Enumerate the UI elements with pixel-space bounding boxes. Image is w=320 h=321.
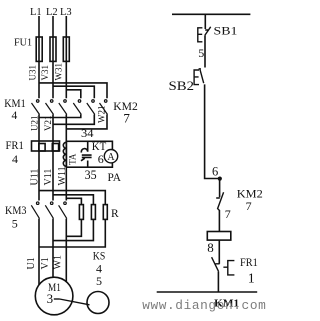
- current relay KT box: [66, 141, 112, 167]
- svg-text:FR1: FR1: [6, 138, 24, 152]
- svg-text:U1: U1: [26, 257, 37, 269]
- svg-text:KS: KS: [93, 250, 106, 262]
- resistor R element 1: [79, 205, 83, 220]
- control wire FR1 to bottom rail: [217, 272, 219, 292]
- start button SB2: [194, 69, 204, 85]
- svg-text:5: 5: [96, 274, 102, 288]
- svg-text:6: 6: [212, 165, 218, 179]
- FR1 heater element 1: [39, 144, 45, 152]
- FR1 heater element 2: [52, 144, 58, 152]
- svg-text:L2: L2: [46, 7, 58, 18]
- svg-text:W11: W11: [57, 166, 68, 185]
- wire tap L1 to resistor 3: [39, 191, 105, 205]
- svg-text:35: 35: [85, 167, 97, 182]
- svg-text:U21: U21: [30, 116, 40, 132]
- contactor KM1 contact 3: [59, 100, 67, 115]
- fuse FU1 pole2: [50, 37, 56, 61]
- svg-text:KT: KT: [92, 141, 107, 153]
- wire resistor1 bottom to L3: [66, 219, 81, 236]
- stop button SB1: [198, 27, 211, 42]
- contactor KM1 contact 1: [32, 100, 40, 115]
- node 6 junction dot: [218, 177, 222, 181]
- ammeter PA circle: [104, 150, 117, 163]
- svg-text:1: 1: [248, 271, 255, 286]
- control bottom rail: [157, 291, 258, 293]
- svg-text:4: 4: [12, 110, 18, 122]
- thermal contact FR1 (NC): [212, 257, 235, 275]
- svg-text:5: 5: [12, 217, 18, 231]
- svg-text:34: 34: [81, 128, 94, 140]
- coil KM1: [207, 232, 231, 241]
- svg-text:V11: V11: [43, 169, 54, 186]
- wire crossover L3 to KM2 left contact: [66, 90, 81, 98]
- control top rail: [172, 13, 250, 15]
- svg-text:TA: TA: [67, 153, 77, 165]
- thermal relay FR1 heater box: [32, 141, 60, 151]
- control wire coil to FR1: [218, 240, 220, 264]
- svg-text:L1: L1: [30, 7, 42, 18]
- speed relay KS circle: [87, 292, 109, 314]
- wire KM2 contact2 bottom to L2: [53, 115, 94, 125]
- svg-text:PA: PA: [108, 172, 122, 184]
- fuse FU1 pole3: [63, 37, 69, 61]
- svg-text:U31: U31: [28, 65, 38, 81]
- contactor KM1 contact 2: [46, 100, 54, 115]
- wire tap L2 to resistor 2: [53, 195, 93, 205]
- svg-text:V21: V21: [43, 116, 53, 132]
- svg-text:7: 7: [123, 111, 130, 126]
- interlock contact KM2 (NC): [216, 192, 223, 210]
- svg-text:5: 5: [198, 46, 204, 60]
- tilde of 3~: [54, 298, 60, 300]
- control wire KM2 contact to coil: [218, 210, 220, 231]
- resistor R element 3: [103, 205, 107, 220]
- wire resistor3 bottom to L1: [39, 219, 105, 247]
- svg-text:V1: V1: [40, 257, 51, 269]
- wire resistor2 bottom to L2: [53, 219, 93, 240]
- svg-text:SB2: SB2: [169, 79, 195, 93]
- contactor KM3 contact 2: [45, 202, 53, 219]
- KT coil symbol: [81, 149, 92, 161]
- current transformer TA arcs: [63, 142, 66, 166]
- motor M1 circle: [35, 277, 73, 315]
- svg-text:KM1: KM1: [4, 98, 26, 110]
- wire tap L3 to resistor 1: [66, 198, 81, 204]
- wire L2 phase: [52, 16, 54, 277]
- svg-text:3: 3: [47, 291, 54, 306]
- svg-text:6: 6: [98, 152, 104, 166]
- svg-text:SB1: SB1: [214, 25, 238, 37]
- svg-text:W31: W31: [54, 63, 64, 81]
- svg-text:A: A: [107, 152, 115, 163]
- control wire node6 to KM2 contact: [219, 179, 221, 198]
- wire L1 phase: [38, 16, 40, 285]
- svg-text:U11: U11: [30, 169, 41, 186]
- svg-text:4: 4: [12, 152, 18, 166]
- KT coil branch wire: [87, 141, 89, 167]
- shaft link motor to KS: [60, 299, 90, 305]
- contactor KM3 contact 1: [31, 202, 39, 219]
- control wire SB1 to SB2: [204, 35, 206, 67]
- wire KM2 contact3 bottom to L3: [66, 115, 107, 129]
- contactor KM2 contact 1: [73, 100, 81, 115]
- svg-text:www.diangon.com: www.diangon.com: [142, 298, 266, 313]
- resistor R element 2: [91, 205, 95, 220]
- control wire from rail to SB1: [204, 14, 206, 29]
- fuse FU1 pole1: [36, 37, 42, 61]
- wire KM2 contact1 bottom to L1: [39, 115, 81, 118]
- wire crossover L1 to KM2 right contact: [39, 83, 107, 98]
- contactor KM2 contact 2: [87, 100, 95, 115]
- control wire SB2 to node 6: [205, 84, 220, 178]
- svg-text:KM3: KM3: [5, 205, 27, 217]
- svg-text:FR1: FR1: [240, 257, 258, 269]
- svg-text:FU1: FU1: [14, 37, 32, 49]
- svg-text:R: R: [111, 208, 119, 220]
- svg-text:8: 8: [207, 240, 214, 255]
- wire L3 phase: [65, 16, 67, 282]
- svg-text:W21: W21: [97, 106, 107, 124]
- svg-text:7: 7: [225, 207, 231, 221]
- svg-text:V31: V31: [40, 65, 50, 81]
- wire crossover L2 to KM2 middle contact: [53, 86, 94, 98]
- svg-text:L3: L3: [60, 7, 72, 18]
- svg-text:7: 7: [246, 199, 252, 213]
- contactor KM2 contact 3: [100, 100, 108, 115]
- svg-text:W1: W1: [53, 255, 64, 269]
- contactor KM3 contact 3: [59, 202, 67, 219]
